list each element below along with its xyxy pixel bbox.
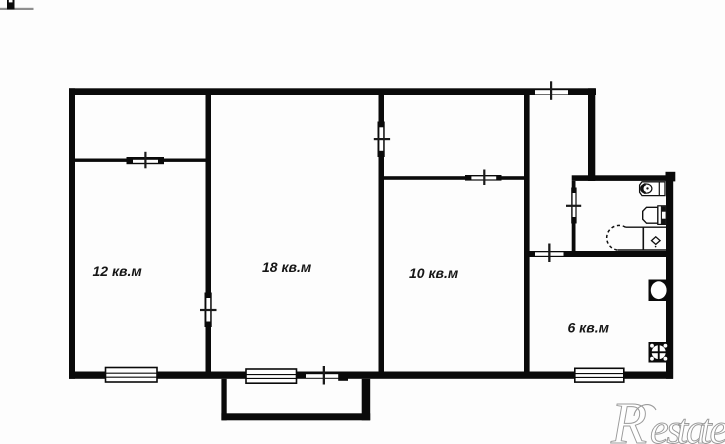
bathtub bbox=[607, 225, 667, 250]
wall bottom outer bbox=[69, 372, 673, 379]
door rooms 18/10 wall C bbox=[374, 122, 390, 158]
sink kitchen bbox=[649, 342, 670, 363]
wall interior A closet bottom bbox=[75, 159, 209, 162]
wall bathroom top bbox=[572, 175, 675, 181]
sink bathroom bbox=[640, 182, 665, 196]
toilet bbox=[643, 206, 667, 225]
door closet wall A bbox=[127, 152, 165, 169]
svg-text:12 кв.м: 12 кв.м bbox=[93, 263, 143, 279]
svg-text:6 кв.м: 6 кв.м bbox=[568, 320, 610, 336]
door main entry on top wall bbox=[535, 81, 568, 100]
logo fragment top-left bbox=[0, 0, 34, 10]
wall top outer bbox=[69, 88, 596, 95]
wall left outer bbox=[69, 88, 75, 379]
watermark Restate bbox=[610, 390, 725, 444]
wall bathroom left bbox=[572, 181, 576, 251]
wall right upper outer bbox=[588, 88, 595, 181]
door room10 wall D bbox=[465, 170, 502, 186]
wall kitchen top bbox=[524, 251, 673, 257]
window room18 bottom bbox=[246, 369, 297, 383]
window kitchen bottom bbox=[575, 368, 624, 382]
wall balcony bottom bbox=[221, 413, 370, 420]
svg-text:18 кв.м: 18 кв.м bbox=[262, 259, 312, 275]
window room12 bottom bbox=[106, 368, 158, 383]
wall interior D room10 top bbox=[384, 176, 524, 180]
stove kitchen bbox=[649, 280, 670, 302]
wall interior C divider rooms 18/10 bbox=[379, 95, 385, 372]
wall corner block bathroom top-right bbox=[666, 172, 676, 182]
wall right lower outer bbox=[666, 176, 673, 379]
door bathroom bbox=[566, 188, 581, 224]
wall interior B divider rooms 12/18 bbox=[206, 95, 212, 372]
svg-text:10 кв.м: 10 кв.м bbox=[409, 265, 459, 281]
wall balcony left bbox=[221, 379, 226, 421]
wall interior E vertical hallway/kitchen bbox=[524, 95, 530, 372]
door rooms 12/18 wall B bbox=[200, 293, 217, 328]
door kitchen bbox=[535, 244, 564, 263]
wall balcony right bbox=[362, 379, 371, 421]
door balcony bbox=[306, 366, 348, 385]
